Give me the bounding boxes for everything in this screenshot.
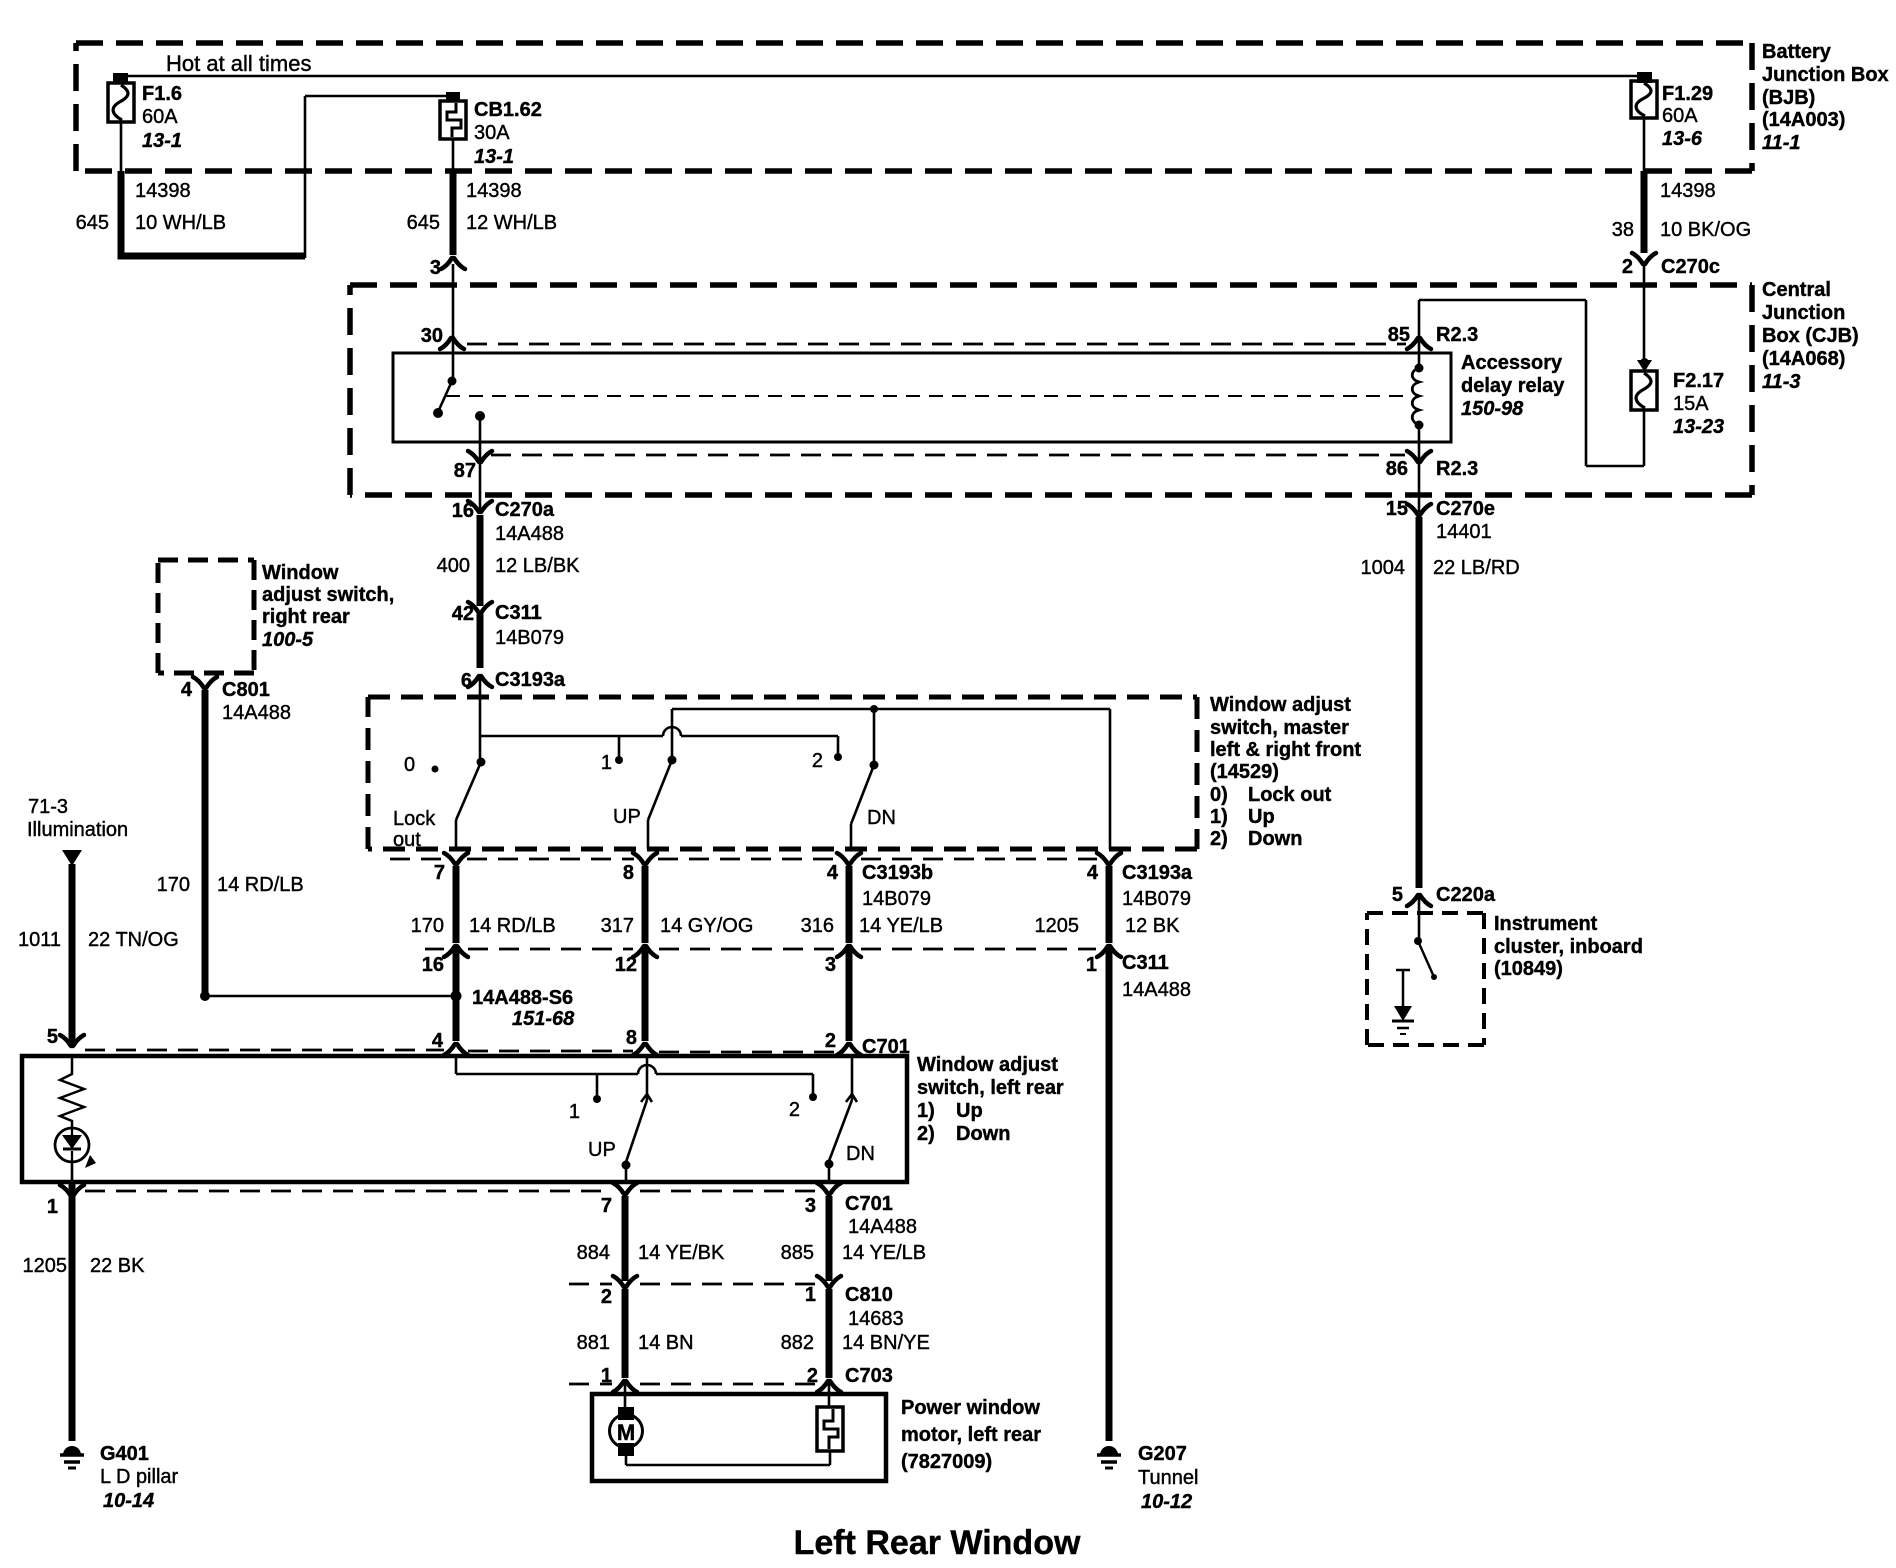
dashed row C701 upper <box>85 1049 444 1052</box>
svg-text:14 RD/LB: 14 RD/LB <box>469 915 556 937</box>
svg-text:Power window: Power window <box>901 1397 1040 1419</box>
svg-text:(14A003): (14A003) <box>1762 109 1845 131</box>
wire: C220a into cluster <box>1418 897 1421 941</box>
wire: C311-16 to C701-4 (thick) <box>453 948 460 1041</box>
svg-text:Lock: Lock <box>393 808 436 830</box>
wire 316 14 YE/LB (thick) <box>846 866 853 943</box>
svg-text:13-1: 13-1 <box>142 130 182 152</box>
svg-text:switch, master: switch, master <box>1210 717 1349 739</box>
svg-text:L D pillar: L D pillar <box>100 1466 179 1488</box>
svg-text:1004: 1004 <box>1361 557 1406 579</box>
switch DN (master) <box>870 761 879 770</box>
svg-text:400: 400 <box>437 555 470 577</box>
svg-text:22 LB/RD: 22 LB/RD <box>1433 557 1520 579</box>
svg-text:645: 645 <box>76 212 109 234</box>
svg-text:Instrument: Instrument <box>1494 913 1598 935</box>
svg-text:30: 30 <box>421 325 443 347</box>
svg-text:Junction Box: Junction Box <box>1762 64 1889 86</box>
connector C701 pin 7 <box>613 1183 637 1194</box>
dashed row C810 <box>569 1283 612 1286</box>
illumination resistor <box>60 1058 84 1128</box>
svg-text:60A: 60A <box>1662 105 1698 127</box>
wire: C703-2 to breaker <box>828 1383 831 1407</box>
svg-text:14 YE/BK: 14 YE/BK <box>638 1242 725 1264</box>
svg-text:38: 38 <box>1612 219 1634 241</box>
svg-text:C3193b: C3193b <box>862 862 933 884</box>
svg-text:14398: 14398 <box>1660 180 1716 202</box>
switch UP (left rear) <box>641 1094 652 1102</box>
svg-text:14B079: 14B079 <box>862 888 931 910</box>
wire 882 14 BN/YE (thick) <box>826 1289 833 1378</box>
dashed row C703 <box>569 1383 612 1386</box>
svg-text:1: 1 <box>47 1196 58 1218</box>
svg-text:C703: C703 <box>845 1365 893 1387</box>
svg-text:14B079: 14B079 <box>495 627 564 649</box>
svg-text:2: 2 <box>812 750 823 772</box>
wire: rail to UP contact <box>671 709 674 760</box>
svg-text:11-3: 11-3 <box>1762 371 1801 393</box>
box: window adjust switch right rear <box>158 558 254 563</box>
svg-text:Window adjust: Window adjust <box>917 1054 1058 1076</box>
svg-text:150-98: 150-98 <box>1461 398 1524 420</box>
svg-text:delay relay: delay relay <box>1461 375 1565 397</box>
svg-text:2: 2 <box>601 1286 612 1308</box>
svg-text:881: 881 <box>577 1332 610 1354</box>
svg-text:cluster, inboard: cluster, inboard <box>1494 936 1643 958</box>
svg-text:71-3: 71-3 <box>28 796 68 818</box>
svg-text:6: 6 <box>461 670 472 692</box>
dashed row C701 lower <box>85 1190 610 1193</box>
svg-text:left & right front: left & right front <box>1210 739 1361 761</box>
svg-text:14 YE/LB: 14 YE/LB <box>859 915 943 937</box>
svg-text:UP: UP <box>613 806 641 828</box>
svg-text:F1.29: F1.29 <box>1662 83 1713 105</box>
svg-text:884: 884 <box>577 1242 610 1264</box>
arrow from page 71-3 <box>62 850 82 866</box>
svg-text:151-68: 151-68 <box>512 1008 575 1030</box>
svg-text:DN: DN <box>846 1143 875 1165</box>
svg-text:2: 2 <box>789 1099 800 1121</box>
dashed row C3193b/C3193a <box>390 858 445 861</box>
wire: pin3 to relay pin30 <box>452 264 455 381</box>
wire 317 14 GY/OG (thick) <box>642 866 649 943</box>
svg-text:CB1.62: CB1.62 <box>474 99 542 121</box>
svg-text:13-1: 13-1 <box>474 146 514 168</box>
svg-text:switch, left rear: switch, left rear <box>917 1077 1064 1099</box>
wire: pin86 to C270e <box>1418 425 1421 512</box>
svg-text:4: 4 <box>181 679 193 701</box>
svg-text:8: 8 <box>626 1027 637 1049</box>
svg-text:3: 3 <box>825 954 836 976</box>
svg-text:Up: Up <box>1248 806 1275 828</box>
svg-text:14A488-S6: 14A488-S6 <box>472 987 573 1009</box>
svg-text:C270e: C270e <box>1436 498 1495 520</box>
wire: rail to DN contact <box>873 709 876 765</box>
svg-text:14A488: 14A488 <box>848 1216 917 1238</box>
svg-text:14A488: 14A488 <box>495 523 564 545</box>
svg-text:0: 0 <box>404 754 415 776</box>
svg-text:4: 4 <box>432 1030 444 1052</box>
wire: motor internal return <box>625 1456 628 1465</box>
wire: C311 to C3193a (thick) <box>477 614 484 668</box>
svg-text:motor, left rear: motor, left rear <box>901 1424 1041 1446</box>
switch DN (left rear) <box>846 1094 857 1102</box>
box: power window motor left rear <box>592 1394 886 1481</box>
wire 881 14 BN (thick) <box>622 1289 629 1378</box>
wire: pin87 to C270a <box>479 442 482 512</box>
svg-text:3: 3 <box>805 1195 816 1217</box>
wire: C311-3 to C701-2 (thick) <box>846 948 853 1041</box>
svg-text:14 BN/YE: 14 BN/YE <box>842 1332 930 1354</box>
svg-text:14 YE/LB: 14 YE/LB <box>842 1242 926 1264</box>
svg-text:Box (CJB): Box (CJB) <box>1762 325 1859 347</box>
svg-text:100-5: 100-5 <box>262 629 314 651</box>
svg-text:11-1: 11-1 <box>1762 132 1801 154</box>
wire 1205 12 BK (thick) <box>1106 866 1113 943</box>
svg-text:Down: Down <box>956 1123 1010 1145</box>
terminal at F2.17 top <box>1637 360 1652 372</box>
wire 38 10 BK/OG (thick) <box>1641 171 1648 253</box>
svg-text:2: 2 <box>1622 256 1633 278</box>
svg-text:out: out <box>393 829 421 851</box>
wire: relay coil loop to F2.17 <box>1419 299 1586 302</box>
svg-text:4: 4 <box>1087 862 1099 884</box>
svg-text:C801: C801 <box>222 679 270 701</box>
svg-text:5: 5 <box>1392 884 1403 906</box>
wire 1011 22 TN/OG (thick) <box>69 864 76 1043</box>
wire 400 12 LB/BK (thick) <box>477 515 484 606</box>
box: instrument cluster <box>1367 911 1484 915</box>
junction on upper rail <box>870 705 878 713</box>
svg-text:2): 2) <box>1210 828 1228 850</box>
svg-text:86: 86 <box>1386 458 1408 480</box>
box: window adjust switch master outline <box>368 695 1197 700</box>
node position-2 stub (master) <box>837 736 840 753</box>
wire: C801 to splice S6 <box>200 991 210 1001</box>
svg-text:DN: DN <box>867 807 896 829</box>
svg-text:(10849): (10849) <box>1494 958 1563 980</box>
svg-text:1: 1 <box>805 1284 816 1306</box>
svg-text:316: 316 <box>801 915 834 937</box>
node position-1 stub (left rear) <box>596 1074 599 1096</box>
fuse F1.29 <box>1631 81 1657 118</box>
svg-text:14 RD/LB: 14 RD/LB <box>217 874 304 896</box>
svg-text:(14529): (14529) <box>1210 761 1279 783</box>
wire: master upper rail <box>672 708 1110 711</box>
svg-text:C3193a: C3193a <box>1122 862 1193 884</box>
svg-text:170: 170 <box>157 874 190 896</box>
svg-text:C311: C311 <box>495 602 542 624</box>
motor M (7827009) <box>618 1407 634 1420</box>
node position-1 stub (master) <box>618 736 621 757</box>
box: Battery Junction Box (BJB) outline <box>76 40 1752 46</box>
svg-text:Window adjust: Window adjust <box>1210 694 1351 716</box>
relay socket dashed row (87/86) <box>491 454 1405 457</box>
svg-text:Up: Up <box>956 1100 983 1122</box>
svg-text:15: 15 <box>1386 498 1408 520</box>
relay internal link (dashed) <box>446 395 1407 397</box>
box: window adjust switch left rear <box>22 1056 907 1182</box>
svg-text:12 WH/LB: 12 WH/LB <box>466 212 557 234</box>
wire: CB1.62 to CJB (thick) <box>452 139 455 171</box>
wire: pin85 riser <box>1418 300 1421 368</box>
relay coil R2.3 <box>1415 364 1424 373</box>
connector C810 pin 2 <box>613 1276 637 1287</box>
svg-text:adjust switch,: adjust switch, <box>262 584 394 606</box>
svg-text:C3193a: C3193a <box>495 669 566 691</box>
wire: C701-8 into box <box>646 1058 649 1100</box>
wire: C270c to F2.17 <box>1643 264 1646 360</box>
svg-text:16: 16 <box>422 954 444 976</box>
ground G207 <box>1100 1446 1118 1455</box>
svg-text:Battery: Battery <box>1762 41 1832 63</box>
svg-text:60A: 60A <box>142 106 178 128</box>
wire: C703-1 to motor <box>624 1383 627 1409</box>
svg-text:C270a: C270a <box>495 499 555 521</box>
svg-text:R2.3: R2.3 <box>1436 324 1478 346</box>
cluster ground <box>1396 969 1410 972</box>
box: accessory delay relay <box>393 353 1451 442</box>
wire: C311-12 to C701-8 (thick) <box>642 948 649 1041</box>
circuit breaker CB1.62 <box>440 101 466 139</box>
svg-text:14401: 14401 <box>1436 521 1492 543</box>
wire 170 14 RD/LB right-rear (thick) <box>202 690 209 996</box>
svg-text:14398: 14398 <box>135 180 191 202</box>
wire 885 14 YE/LB (thick) <box>826 1196 833 1281</box>
svg-text:C311: C311 <box>1122 952 1169 974</box>
svg-text:G401: G401 <box>100 1443 149 1465</box>
svg-text:C270c: C270c <box>1661 256 1720 278</box>
wire: C3193a into master switch <box>479 676 482 736</box>
svg-text:(7827009): (7827009) <box>901 1451 992 1473</box>
svg-text:7: 7 <box>601 1195 612 1217</box>
wire 645 10 WH/LB (thick L) <box>121 171 305 256</box>
svg-text:R2.3: R2.3 <box>1436 458 1478 480</box>
wire: F1.6 to BJB edge <box>120 122 123 171</box>
relay switch contact to pin 87 <box>475 411 485 421</box>
wire: lamp to C701 pin1 <box>71 1162 74 1182</box>
svg-text:14683: 14683 <box>848 1308 904 1330</box>
wire: master common rail <box>480 735 663 738</box>
svg-text:Hot at all times: Hot at all times <box>166 51 312 76</box>
svg-text:(14A068): (14A068) <box>1762 348 1845 370</box>
svg-text:14A488: 14A488 <box>222 702 291 724</box>
svg-text:30A: 30A <box>474 122 510 144</box>
svg-text:12 LB/BK: 12 LB/BK <box>495 555 580 577</box>
svg-text:right rear: right rear <box>262 606 350 628</box>
splice 14A488-S6 <box>451 991 462 1002</box>
wire: riser to CB1.62 <box>304 96 307 258</box>
svg-text:1: 1 <box>569 1101 580 1123</box>
svg-text:Lock out: Lock out <box>1248 784 1332 806</box>
svg-text:G207: G207 <box>1138 1443 1187 1465</box>
svg-text:2: 2 <box>807 1365 818 1387</box>
svg-text:F2.17: F2.17 <box>1673 370 1724 392</box>
wire: left-rear common rail <box>455 1058 458 1074</box>
ground G401 <box>63 1446 81 1455</box>
svg-text:Illumination: Illumination <box>27 819 128 841</box>
svg-text:C701: C701 <box>845 1193 893 1215</box>
svg-text:170: 170 <box>411 915 444 937</box>
illumination lamp <box>55 1128 89 1162</box>
relay switch pivot <box>448 377 457 386</box>
svg-text:(BJB): (BJB) <box>1762 87 1815 109</box>
svg-text:882: 882 <box>781 1332 814 1354</box>
svg-text:87: 87 <box>454 460 476 482</box>
svg-text:885: 885 <box>781 1242 814 1264</box>
fuse F1.6 <box>108 83 134 122</box>
dashed row C311 <box>425 948 444 951</box>
cluster switch <box>1414 937 1422 945</box>
svg-text:Central: Central <box>1762 279 1831 301</box>
svg-text:UP: UP <box>588 1139 616 1161</box>
svg-text:1011: 1011 <box>18 929 61 951</box>
wire: C701-2 into box <box>851 1058 854 1100</box>
svg-text:85: 85 <box>1388 324 1410 346</box>
connector C701 pin 1 (illum return) <box>60 1185 84 1196</box>
connector C701 pin 3 <box>817 1183 841 1194</box>
wire: hot-at-all-times bus <box>121 75 1640 78</box>
svg-text:14398: 14398 <box>466 180 522 202</box>
svg-text:10-12: 10-12 <box>1141 1491 1192 1513</box>
wire 1004 22 LB/RD (thick) <box>1416 517 1423 888</box>
svg-text:Accessory: Accessory <box>1461 352 1563 374</box>
wire: rail to C3193a pin4 <box>1109 709 1112 849</box>
wire: C311-1 to G207 (thick) <box>1106 948 1113 1441</box>
svg-text:Down: Down <box>1248 828 1302 850</box>
wire 884 14 YE/BK (thick) <box>622 1196 629 1281</box>
motor thermal breaker <box>817 1407 843 1451</box>
svg-text:Tunnel: Tunnel <box>1138 1467 1198 1489</box>
wire 1205 22 BK (thick) <box>69 1184 76 1441</box>
wire: F1.29 to BJB edge <box>1643 118 1646 171</box>
svg-text:1): 1) <box>917 1100 935 1122</box>
svg-text:10 BK/OG: 10 BK/OG <box>1660 219 1751 241</box>
svg-text:2: 2 <box>825 1030 836 1052</box>
fuse F2.17 <box>1631 371 1657 410</box>
svg-text:5: 5 <box>47 1026 58 1048</box>
svg-text:C810: C810 <box>845 1284 893 1306</box>
svg-text:C220a: C220a <box>1436 884 1496 906</box>
svg-text:10-14: 10-14 <box>103 1490 154 1512</box>
svg-text:1: 1 <box>601 752 612 774</box>
svg-text:317: 317 <box>601 915 634 937</box>
connector C810 pin 1 <box>817 1276 841 1287</box>
svg-text:14 GY/OG: 14 GY/OG <box>660 915 753 937</box>
svg-text:0): 0) <box>1210 784 1228 806</box>
svg-text:4: 4 <box>827 862 839 884</box>
svg-text:15A: 15A <box>1673 393 1709 415</box>
svg-text:12 BK: 12 BK <box>1125 915 1180 937</box>
svg-text:8: 8 <box>623 862 634 884</box>
node position-2 stub (left rear) <box>812 1074 815 1094</box>
svg-text:14 BN: 14 BN <box>638 1332 694 1354</box>
relay switch blade <box>438 381 452 412</box>
svg-text:22 BK: 22 BK <box>90 1255 145 1277</box>
svg-text:Left Rear Window: Left Rear Window <box>794 1524 1081 1562</box>
svg-text:M: M <box>617 1420 635 1445</box>
svg-text:14A488: 14A488 <box>1122 979 1191 1001</box>
svg-text:22 TN/OG: 22 TN/OG <box>88 929 179 951</box>
svg-text:1205: 1205 <box>1035 915 1080 937</box>
svg-text:13-6: 13-6 <box>1662 128 1703 150</box>
svg-text:Window: Window <box>262 562 339 584</box>
svg-text:13-23: 13-23 <box>1673 416 1724 438</box>
svg-text:1205: 1205 <box>23 1255 68 1277</box>
svg-text:7: 7 <box>434 862 445 884</box>
svg-text:Junction: Junction <box>1762 302 1845 324</box>
box: Central Junction Box (CJB) outline <box>350 282 1752 288</box>
svg-text:2): 2) <box>917 1123 935 1145</box>
svg-text:645: 645 <box>407 212 440 234</box>
svg-text:10 WH/LB: 10 WH/LB <box>135 212 226 234</box>
svg-text:14B079: 14B079 <box>1122 888 1191 910</box>
svg-text:1: 1 <box>601 1365 612 1387</box>
switch LOCKOUT (master) <box>479 736 482 758</box>
relay socket dashed row (30/85) <box>467 343 1406 346</box>
switch UP (master) <box>668 756 677 765</box>
svg-text:F1.6: F1.6 <box>142 83 182 105</box>
svg-text:1): 1) <box>1210 806 1228 828</box>
wire 170 14 RD/LB (thick) <box>453 866 460 943</box>
